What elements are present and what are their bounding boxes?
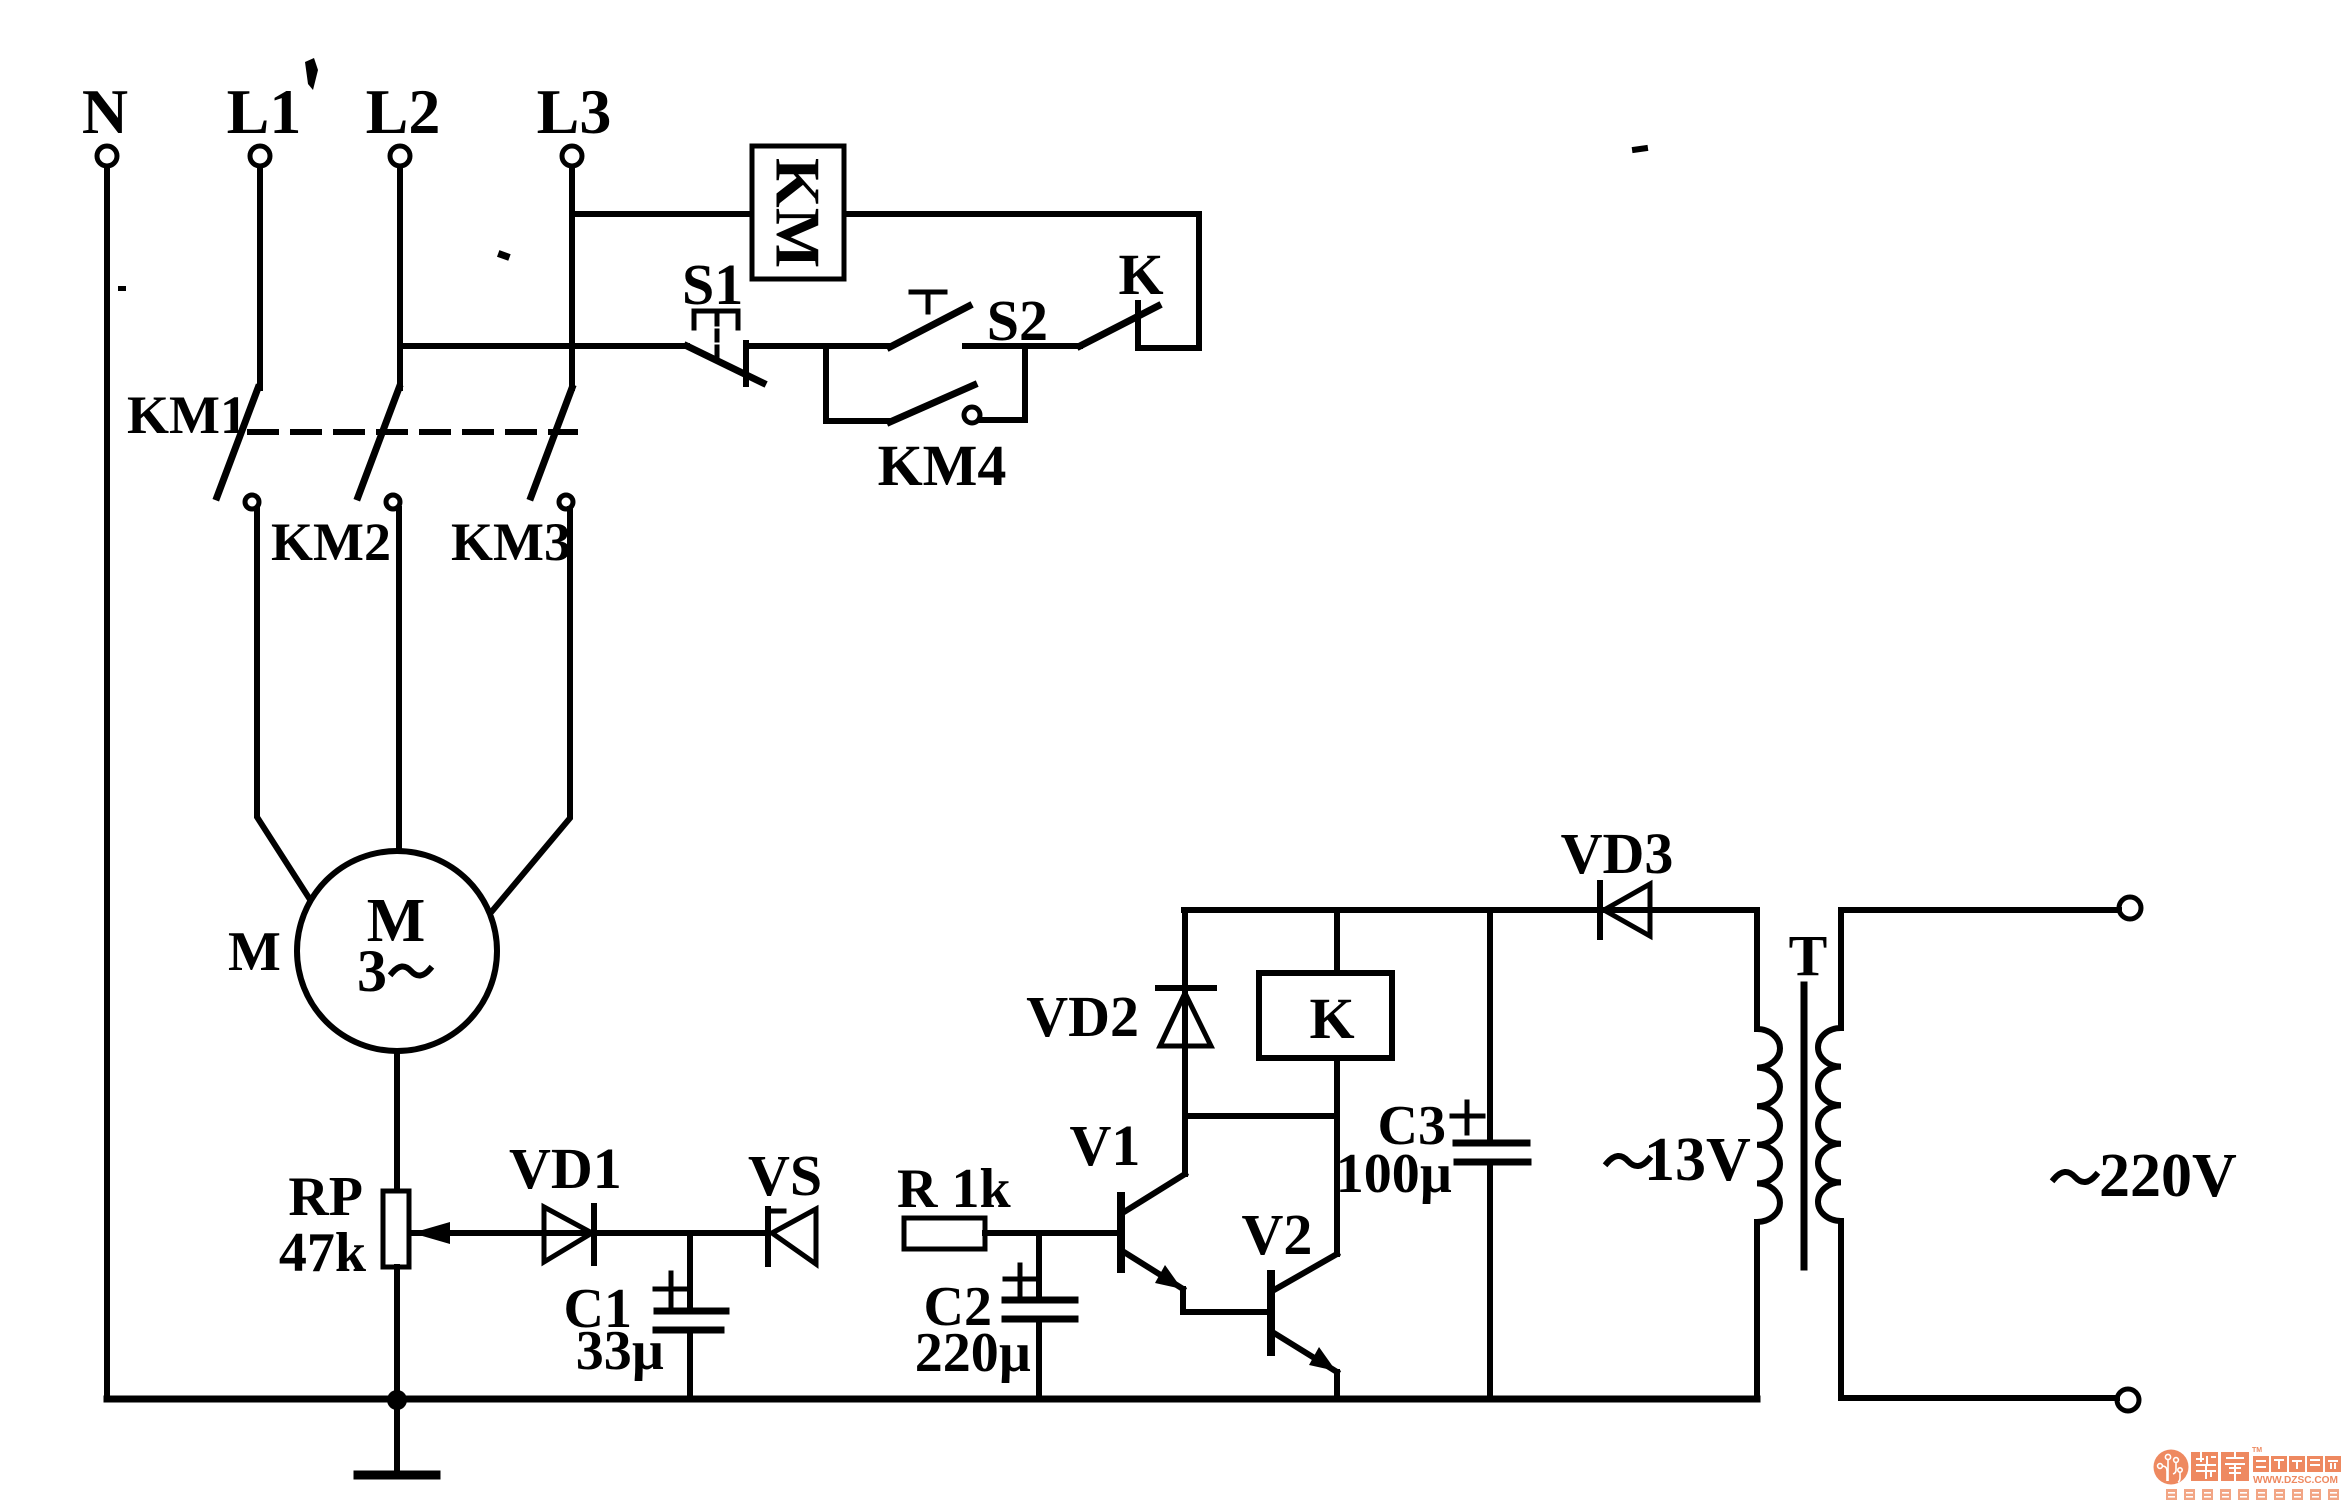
wire motor to RP [394,1051,400,1191]
svg-text:L1: L1 [227,76,302,147]
svg-text:L2: L2 [366,76,441,147]
wire L3 vertical [569,167,575,388]
watermark logo dzsc [2154,1447,2341,1500]
svg-text:3: 3 [357,938,387,1004]
wire KM2 contact to motor [396,509,402,851]
resistor R 1k [897,1158,1011,1249]
svg-text:VS: VS [748,1143,822,1208]
svg-text:100µ: 100µ [1336,1143,1452,1205]
switch S1 (NC button) [682,252,763,384]
capacitor C3 100u [1336,910,1528,1399]
wire N vertical [104,167,110,1399]
wire K relay branch vertical [1334,910,1340,1254]
wire KM3 contact to motor [493,509,570,910]
svg-text:VD3: VD3 [1561,821,1674,886]
label ~220V [2054,1172,2096,1182]
wire KM1 contact to motor [257,509,309,898]
node N terminal [82,76,128,166]
svg-text:T: T [1789,923,1828,988]
svg-text:VD1: VD1 [509,1136,622,1201]
wire R to V1 base [985,1230,1118,1236]
svg-text:RP: RP [288,1166,363,1228]
svg-text:K: K [1118,242,1163,307]
svg-text:TM: TM [2252,1447,2262,1454]
svg-text:47k: 47k [279,1222,367,1284]
node L1 terminal [227,76,302,166]
node L3 terminal [537,76,612,166]
svg-text:KM4: KM4 [878,433,1007,498]
potentiometer RP 47k [279,1166,409,1399]
wire KM coil line [572,211,1199,217]
motor M 3-phase [228,851,497,1051]
svg-text:WWW.DZSC.COM: WWW.DZSC.COM [2253,1474,2338,1486]
node 220V top terminal [2119,897,2141,919]
svg-text:L3: L3 [537,76,612,147]
transformer T core [1801,985,1808,1267]
diode VD3 [1561,821,1674,937]
wire right vertical to K contact [1138,214,1199,348]
junction dot [387,1390,407,1410]
wire V1/V2 collector link [1185,1113,1337,1119]
wire L2 vertical [397,167,403,388]
wire top rail [1184,907,1757,913]
svg-text:V2: V2 [1242,1202,1313,1267]
svg-text:33µ: 33µ [576,1320,664,1382]
contactor coil KM [752,146,844,279]
transistor V2 [1242,1202,1337,1399]
svg-text:KM1: KM1 [127,385,247,445]
transistor V1 [1070,1113,1271,1312]
svg-text:VD2: VD2 [1026,984,1139,1049]
svg-text:M: M [228,921,281,983]
svg-text:KM: KM [763,158,834,268]
capacitor C2 220u [915,1233,1075,1399]
transformer T primary winding [1818,910,2119,1398]
diode VD2 [1026,984,1214,1049]
switch K (relay contact) [1080,242,1164,348]
node 220V bottom terminal [2117,1389,2139,1411]
svg-text:KM3: KM3 [451,512,571,572]
wire S2 to K [965,343,1080,349]
svg-text:220V: 220V [2099,1142,2237,1210]
diode VD1 [509,1136,622,1263]
label ~13V [1607,1156,1649,1166]
wire bottom rail [107,1396,1757,1403]
capacitor C1 33u [564,1233,726,1399]
relay coil K [1259,973,1392,1058]
wire control line [400,343,687,349]
ground [358,1399,436,1475]
contact KM4 branch [826,346,1025,498]
svg-text:R 1k: R 1k [897,1158,1011,1220]
thyristor VS [748,1143,822,1264]
svg-text:N: N [82,76,128,147]
svg-text:K: K [1309,986,1354,1051]
wire L1 vertical [257,167,263,388]
svg-text:V1: V1 [1070,1113,1141,1178]
switch S2 (NO button) [890,288,1048,353]
wiper arrow wire [412,1222,768,1244]
node L2 terminal [366,76,441,166]
svg-text:KM2: KM2 [271,512,391,572]
svg-text:S1: S1 [682,252,743,317]
wire VD2 branch vertical [1182,910,1188,1174]
wire S1 to S2 [746,343,890,349]
transformer T secondary winding [1757,910,1780,1399]
contact KM1 (with KM2 KM3 gang, dashed link) [127,385,575,572]
svg-text:220µ: 220µ [915,1322,1031,1384]
svg-text:13V: 13V [1644,1126,1751,1194]
